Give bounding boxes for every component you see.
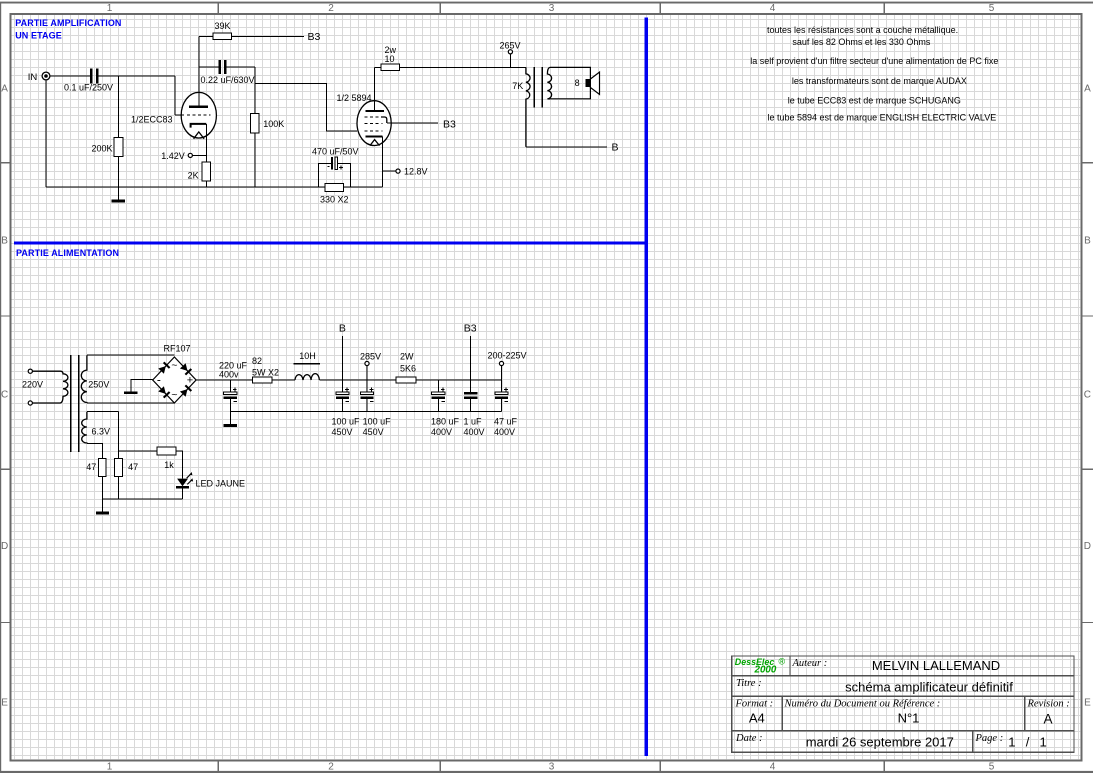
svg-text:47: 47	[86, 462, 96, 472]
capacitor 100uF/450V #2	[360, 380, 373, 412]
wire	[102, 498, 182, 500]
resistor 39K	[213, 21, 232, 39]
wire	[375, 66, 382, 68]
svg-text:B3: B3	[308, 31, 321, 43]
svg-text:~: ~	[171, 359, 177, 371]
wire	[87, 354, 175, 356]
svg-text:+: +	[187, 374, 193, 386]
svg-text:A: A	[1084, 84, 1091, 95]
wire	[319, 379, 396, 381]
wire	[50, 75, 90, 77]
svg-text:2W: 2W	[400, 351, 414, 361]
svg-text:A: A	[1043, 711, 1052, 726]
svg-text:100K: 100K	[263, 119, 284, 129]
svg-text:A: A	[1, 84, 8, 95]
svg-text:Page :: Page :	[975, 733, 1004, 744]
svg-text:C: C	[1084, 390, 1091, 401]
wire	[118, 412, 120, 459]
wire	[174, 76, 176, 115]
svg-text:39K: 39K	[215, 21, 231, 31]
speaker 8 ohms	[575, 72, 600, 94]
svg-text:10H: 10H	[299, 351, 316, 361]
svg-text:1/2ECC83: 1/2ECC83	[131, 114, 173, 124]
svg-text:toutes les résistances sont a: toutes les résistances sont a couche mét…	[767, 25, 958, 35]
svg-text:B: B	[1084, 236, 1091, 247]
svg-text:100 uF: 100 uF	[363, 416, 392, 426]
wire + ground (220uF)	[229, 412, 231, 425]
svg-text:1 uF: 1 uF	[464, 416, 483, 426]
capacitor 0.22uF/630V	[201, 60, 255, 85]
resistor 5K6 (2W)	[396, 351, 416, 383]
transformer core	[533, 67, 535, 108]
ruler bottom bar	[0, 771, 1093, 773]
svg-text:RF107: RF107	[164, 343, 191, 353]
wire	[192, 154, 206, 156]
svg-text:220V: 220V	[22, 380, 43, 390]
resistor 82 (5W X2)	[252, 356, 279, 383]
wire	[197, 379, 253, 381]
svg-text:Numéro du Document ou Référenc: Numéro du Document ou Référence :	[784, 699, 941, 710]
wire	[118, 477, 120, 500]
svg-text:400V: 400V	[494, 427, 515, 437]
svg-text:1.42V: 1.42V	[161, 151, 185, 161]
svg-text:400v: 400v	[219, 370, 239, 380]
wire	[387, 122, 438, 124]
svg-text:les transformateurs sont de ma: les transformateurs sont de marque AUDAX	[792, 76, 967, 86]
ground (heater network)	[96, 512, 109, 515]
wire	[254, 67, 256, 113]
svg-text:UN ETAGE: UN ETAGE	[15, 30, 62, 40]
svg-text:PARTIE AMPLIFICATION: PARTIE AMPLIFICATION	[15, 18, 121, 28]
wire	[45, 80, 47, 187]
wire	[118, 157, 120, 200]
resistor 47 (left)	[86, 458, 106, 476]
capacitor 180uF/400V	[432, 380, 445, 412]
svg-text:100 uF: 100 uF	[332, 416, 361, 426]
ruler left edge line	[0, 2, 1, 772]
ruler row ticks left	[0, 162, 10, 164]
test point 12.8V	[382, 167, 427, 177]
svg-text:Titre :: Titre :	[736, 678, 762, 689]
svg-text:B3: B3	[443, 118, 456, 130]
svg-text:12.8V: 12.8V	[404, 167, 428, 177]
ruler column ticks top	[217, 4, 219, 14]
svg-text:schéma amplificateur définitif: schéma amplificateur définitif	[845, 680, 1013, 695]
svg-text:C: C	[1, 390, 8, 401]
wire	[175, 114, 182, 116]
svg-text:47 uF: 47 uF	[494, 416, 518, 426]
wire	[319, 163, 332, 187]
svg-text:Format :: Format :	[735, 698, 774, 709]
tube 1/2ECC83 (triode)	[131, 36, 216, 162]
ground (amp input)	[112, 200, 126, 203]
svg-text:7K: 7K	[512, 81, 523, 91]
svg-text:le tube 5894 est de marque ENG: le tube 5894 est de marque ENGLISH ELECT…	[768, 113, 997, 123]
svg-text:B: B	[339, 323, 346, 335]
svg-text:sauf les 82 Ohms et les 330 Oh: sauf les 82 Ohms et les 330 Ohms	[792, 37, 931, 47]
svg-text:2000: 2000	[754, 665, 777, 676]
tube 1/2 5894 (output tetrode)	[337, 67, 392, 187]
svg-text:B: B	[612, 141, 619, 153]
svg-text:MELVIN LALLEMAND: MELVIN LALLEMAND	[872, 658, 1000, 673]
wire	[470, 336, 472, 392]
svg-text:400V: 400V	[431, 427, 452, 437]
wire	[501, 366, 503, 380]
resistor 200K	[91, 138, 122, 157]
svg-text:-: -	[157, 372, 161, 386]
wire	[255, 83, 357, 131]
wire	[272, 379, 295, 381]
transformer OPT secondary	[547, 67, 551, 99]
svg-text:400V: 400V	[464, 427, 485, 437]
svg-text:3: 3	[549, 3, 555, 14]
svg-text:E: E	[1, 698, 8, 709]
svg-text:3: 3	[549, 762, 555, 773]
wire	[526, 146, 607, 148]
svg-text:A4: A4	[749, 710, 765, 725]
wire	[101, 477, 103, 512]
wire	[342, 336, 344, 380]
svg-text:Revision :: Revision :	[1027, 698, 1070, 709]
svg-text:D: D	[1084, 541, 1091, 552]
wire	[232, 35, 304, 37]
svg-text:E: E	[1084, 698, 1091, 709]
svg-text:2: 2	[328, 762, 334, 773]
resistor 330 X2	[320, 183, 349, 204]
wire	[199, 35, 213, 37]
svg-text:Auteur :: Auteur :	[792, 658, 828, 669]
title block (cartouche)	[732, 656, 1074, 752]
svg-text:5: 5	[989, 3, 995, 14]
LED JAUNE (yellow LED)	[176, 472, 245, 499]
wire	[46, 186, 325, 188]
svg-text:4: 4	[770, 3, 776, 14]
svg-text:82: 82	[252, 356, 262, 366]
svg-text:Date :: Date :	[735, 733, 763, 744]
svg-text:5: 5	[989, 762, 995, 773]
svg-text:265V: 265V	[500, 41, 521, 51]
test point 200-225V	[488, 351, 527, 366]
resistor 47 (right)	[115, 458, 139, 476]
svg-text:B: B	[1, 236, 8, 247]
wire	[199, 66, 219, 68]
wire	[254, 133, 256, 187]
transformer OPT primary 7K	[512, 67, 530, 147]
ruler row ticks right	[1082, 162, 1093, 164]
svg-text:5K6: 5K6	[400, 363, 416, 373]
wire	[416, 379, 501, 381]
connector 220V terminal bottom	[28, 401, 32, 405]
svg-text:~: ~	[171, 389, 177, 401]
test point 265V	[500, 41, 521, 68]
section divider horizontal line (blue)	[14, 241, 648, 244]
ruler top bar	[0, 2, 1093, 4]
wire	[131, 380, 153, 392]
svg-text:1/2 5894: 1/2 5894	[337, 93, 372, 103]
svg-text:IN: IN	[28, 72, 38, 83]
wire	[99, 75, 176, 77]
svg-text:le tube ECC83 est de marque SC: le tube ECC83 est de marque SCHUGANG	[788, 96, 961, 106]
wire	[400, 66, 526, 68]
wire	[87, 411, 119, 413]
svg-text:D: D	[1, 541, 8, 552]
wire	[337, 163, 350, 187]
transformer mains core	[70, 355, 72, 452]
bridge rectifier RF107	[153, 343, 196, 403]
svg-text:8: 8	[575, 78, 580, 88]
wire	[344, 186, 383, 188]
svg-text:LED JAUNE: LED JAUNE	[196, 478, 246, 488]
svg-text:470 uF/50V: 470 uF/50V	[312, 146, 359, 156]
transformer secondary 6.3V	[82, 412, 110, 444]
wire	[118, 76, 120, 138]
resistor 10 (2w)	[381, 45, 400, 71]
wire	[227, 66, 256, 68]
svg-text:1: 1	[107, 762, 113, 773]
svg-text:1 / 1: 1 / 1	[1008, 734, 1048, 749]
resistor 2K	[188, 162, 211, 181]
wire (speaker loop)	[550, 67, 590, 98]
wire	[119, 450, 157, 452]
inductor 10H (choke)	[294, 351, 321, 380]
capacitor 220uF/400v	[224, 380, 237, 412]
capacitor 100uF/450V #1	[336, 380, 349, 412]
wire	[205, 181, 207, 187]
svg-text:PARTIE ALIMENTATION: PARTIE ALIMENTATION	[16, 248, 119, 258]
svg-text:285V: 285V	[360, 351, 381, 361]
logo DessElec 2000	[735, 657, 786, 676]
section divider vertical line (blue)	[645, 18, 648, 757]
svg-text:4: 4	[770, 762, 776, 773]
svg-text:200-225V: 200-225V	[488, 351, 527, 361]
svg-text:10: 10	[385, 54, 395, 64]
capacitor 470uF/50V	[312, 146, 359, 169]
capacitor 1uF/400V	[464, 392, 477, 411]
test point 285V	[360, 351, 381, 365]
ruler column ticks bottom	[217, 761, 219, 771]
svg-text:47: 47	[128, 462, 138, 472]
wire	[87, 443, 102, 458]
transformer mains primary 220V	[32, 371, 68, 403]
wire	[87, 402, 175, 404]
svg-text:6.3V: 6.3V	[92, 427, 111, 437]
svg-text:1k: 1k	[164, 460, 174, 470]
capacitor 0.1uF/250V	[64, 69, 113, 93]
svg-text:2: 2	[328, 3, 334, 14]
wire (PSU ground rail)	[230, 411, 501, 413]
svg-text:0.22 uF/630V: 0.22 uF/630V	[201, 75, 255, 85]
svg-text:N°1: N°1	[898, 710, 920, 725]
transformer secondary 250V	[81, 355, 109, 403]
ground (PSU filter)	[224, 424, 237, 427]
svg-text:mardi 26 septembre 2017: mardi 26 septembre 2017	[806, 734, 954, 749]
ground (bridge)	[124, 391, 137, 394]
svg-text:la self provient d'un filtre s: la self provient d'un filtre secteur d'u…	[750, 56, 998, 66]
svg-text:450V: 450V	[332, 427, 353, 437]
svg-text:5W X2: 5W X2	[252, 367, 279, 377]
svg-text:330 X2: 330 X2	[320, 195, 349, 205]
resistor 100K	[251, 113, 285, 133]
resistor 1k	[157, 447, 176, 470]
svg-text:250V: 250V	[88, 380, 109, 390]
svg-text:450V: 450V	[363, 427, 384, 437]
svg-text:2K: 2K	[188, 170, 199, 180]
test point 1.42V	[161, 151, 192, 161]
svg-text:180 uF: 180 uF	[431, 416, 460, 426]
svg-text:200K: 200K	[91, 144, 112, 154]
capacitor 47uF/400V	[495, 380, 508, 412]
wire	[176, 451, 183, 479]
svg-text:B3: B3	[464, 323, 477, 335]
svg-text:0.1 uF/250V: 0.1 uF/250V	[64, 83, 113, 93]
svg-text:®: ®	[779, 657, 786, 667]
svg-text:1: 1	[107, 3, 113, 14]
wire	[382, 170, 395, 172]
wire	[366, 366, 368, 380]
connector IN (input terminal)	[28, 72, 50, 83]
connector 220V terminal top	[28, 369, 32, 373]
